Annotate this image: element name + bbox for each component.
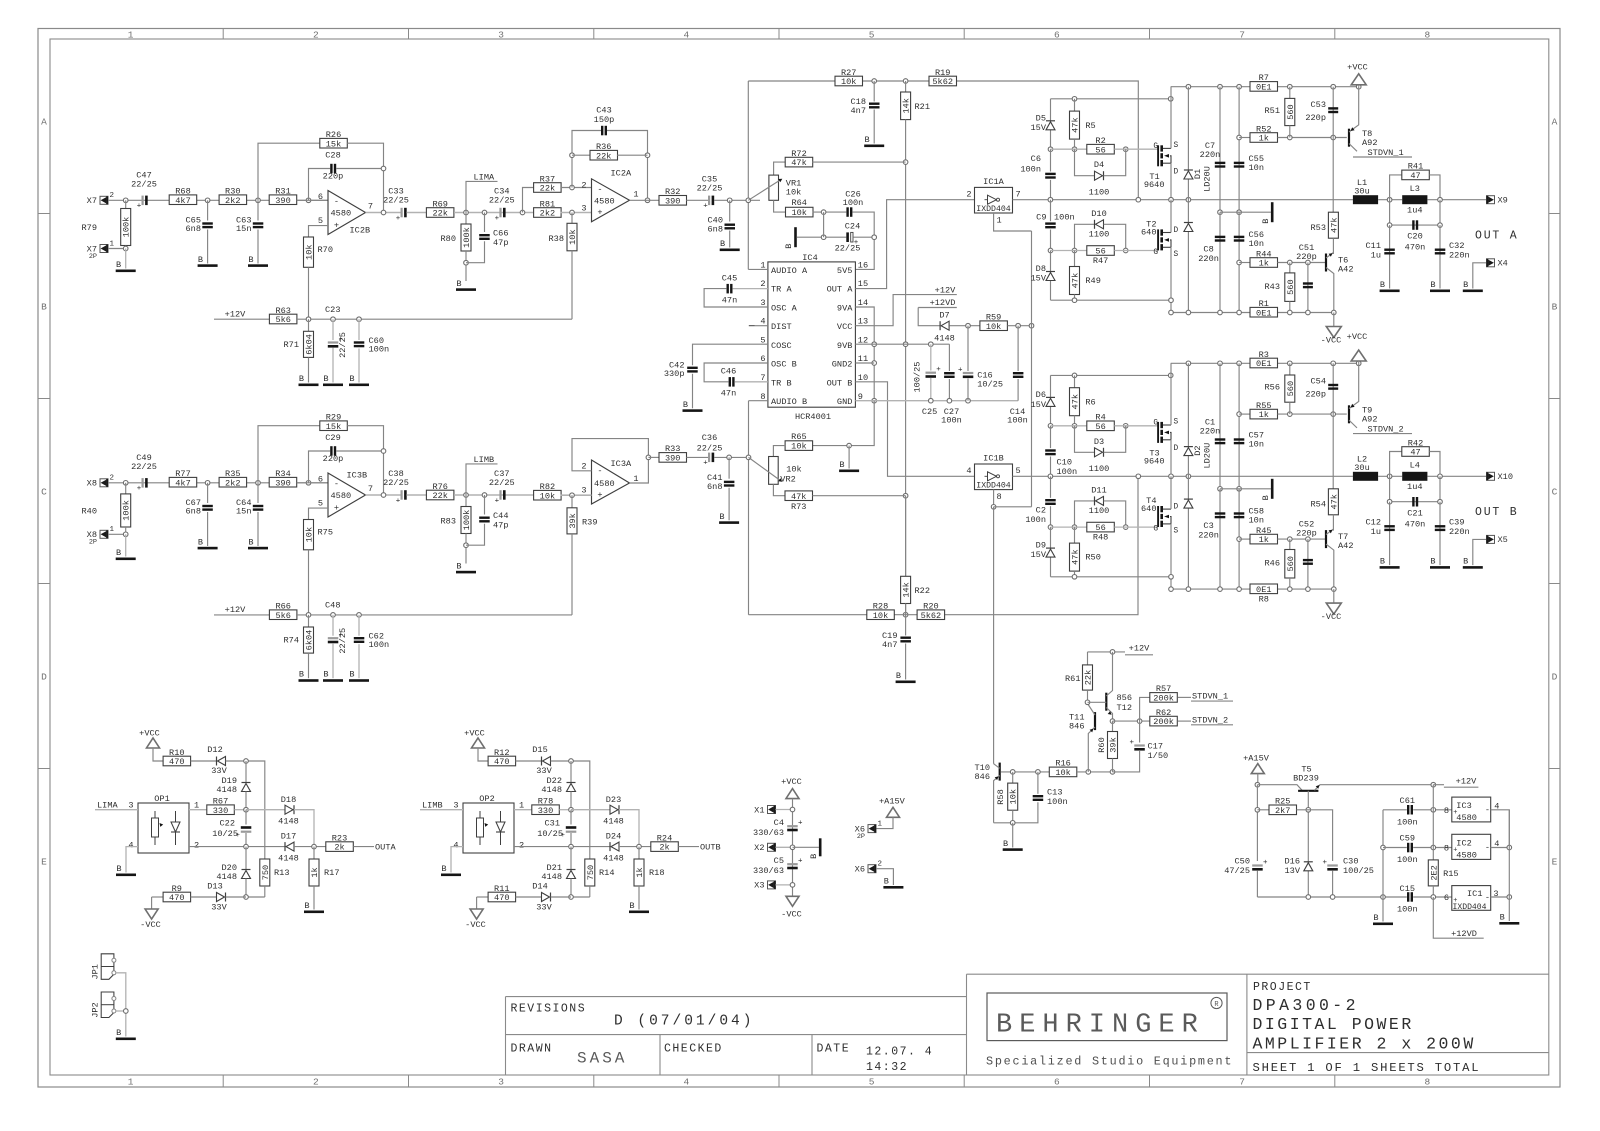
junction 2 <box>256 481 261 486</box>
bottom rail B <box>1171 588 1334 590</box>
svg-text:D3: D3 <box>1094 437 1104 447</box>
svg-text:14k: 14k <box>902 98 912 113</box>
junction IC2A out <box>645 198 650 203</box>
resistor R63 5k6 <box>269 314 297 324</box>
svg-text:10k: 10k <box>540 491 555 501</box>
svg-text:390: 390 <box>665 454 680 464</box>
svg-text:C8: C8 <box>1203 245 1213 255</box>
op-amp IC2B <box>328 191 366 235</box>
junction bias R70 <box>306 317 311 322</box>
terminal X7 pin2 <box>100 196 108 204</box>
bottom row opto <box>246 896 265 898</box>
svg-text:G: G <box>1153 143 1158 151</box>
svg-text:R23: R23 <box>332 833 347 843</box>
svg-text:0E1: 0E1 <box>1256 308 1271 318</box>
capacitor C33 22/25 <box>401 208 403 218</box>
svg-text:-: - <box>597 466 602 476</box>
svg-text:4580: 4580 <box>1456 813 1477 823</box>
svg-text:R10: R10 <box>169 748 184 758</box>
resistor R50 47k <box>1074 527 1076 543</box>
svg-text:560: 560 <box>1286 556 1296 571</box>
svg-text:PROJECT: PROJECT <box>1253 981 1312 994</box>
svg-text:1k: 1k <box>1259 259 1269 269</box>
ground C48 <box>323 679 343 682</box>
row tick B <box>38 213 50 215</box>
wire pin13 VCC riser +12V <box>855 295 956 326</box>
svg-text:2: 2 <box>760 279 765 289</box>
inductor L3 1u4 <box>1402 195 1427 204</box>
svg-text:1k: 1k <box>1259 410 1269 420</box>
diode column D1 LD20U <box>1187 87 1189 313</box>
capacitor C45 47n + loop <box>704 289 768 307</box>
ground under shunt <box>125 534 127 556</box>
svg-text:B: B <box>116 260 121 270</box>
svg-text:10/25: 10/25 <box>537 829 563 839</box>
svg-text:R75: R75 <box>318 528 333 538</box>
resistor R15 2E2 <box>1432 785 1434 860</box>
svg-text:R41: R41 <box>1408 162 1423 172</box>
svg-text:R82: R82 <box>540 482 555 492</box>
svg-text:100n: 100n <box>1397 818 1418 828</box>
svg-text:R43: R43 <box>1265 282 1280 292</box>
svg-text:200k: 200k <box>1153 717 1174 727</box>
svg-text:S: S <box>1174 142 1179 150</box>
svg-text:33V: 33V <box>536 766 552 776</box>
resistor R52 1k <box>1237 135 1242 140</box>
junction output <box>366 494 401 496</box>
svg-text:39k: 39k <box>1109 737 1119 752</box>
svg-text:5: 5 <box>318 216 323 226</box>
svg-text:4580: 4580 <box>331 209 352 219</box>
svg-text:B: B <box>299 374 304 384</box>
svg-text:10k: 10k <box>791 208 806 218</box>
svg-text:10k: 10k <box>1009 789 1019 804</box>
svg-text:4148: 4148 <box>216 872 237 882</box>
svg-text:JP1: JP1 <box>90 964 100 979</box>
resistor R19 5k62 <box>929 76 957 86</box>
ground C60 <box>349 384 369 387</box>
svg-text:LIMB: LIMB <box>422 801 443 811</box>
capacitor C59 100n <box>1381 845 1386 850</box>
svg-text:5k62: 5k62 <box>921 611 942 621</box>
capacitor C38 22/25 <box>401 490 403 500</box>
svg-text:C3: C3 <box>1203 521 1213 531</box>
svg-text:OUT B: OUT B <box>1475 506 1519 519</box>
jumper JP1 <box>101 954 114 980</box>
svg-text:390: 390 <box>665 196 680 206</box>
svg-text:2: 2 <box>878 861 883 869</box>
svg-text:R44: R44 <box>1256 249 1271 259</box>
resistor R76 22k <box>426 490 454 500</box>
svg-text:10k: 10k <box>791 442 806 452</box>
capacitor C4 330/63 <box>787 825 798 827</box>
svg-text:+12V: +12V <box>935 285 956 295</box>
svg-text:14: 14 <box>858 298 868 308</box>
resistor R9 470 <box>152 896 164 898</box>
resistor R57 200k <box>1140 697 1150 721</box>
svg-text:3: 3 <box>581 203 586 213</box>
svg-text:R5: R5 <box>1085 121 1095 131</box>
svg-text:100n: 100n <box>1054 213 1075 223</box>
svg-text:1u: 1u <box>1371 527 1381 537</box>
IC1A pin1 stub <box>994 213 1032 231</box>
svg-text:22/25: 22/25 <box>131 180 157 190</box>
zener return row <box>1051 299 1172 301</box>
pin2 row <box>189 846 285 848</box>
opto pin4 ground <box>451 847 463 873</box>
svg-text:B: B <box>809 854 819 859</box>
svg-text:3: 3 <box>498 1077 504 1088</box>
svg-text:B: B <box>683 400 688 410</box>
svg-text:47: 47 <box>1410 448 1420 458</box>
junction D12/D19 <box>244 759 249 764</box>
svg-text:R32: R32 <box>665 187 680 197</box>
ground R80 <box>456 288 476 291</box>
svg-text:COSC: COSC <box>771 341 792 351</box>
resistor R31 <box>269 195 297 205</box>
svg-text:33V: 33V <box>536 903 552 913</box>
junction minus node <box>306 481 311 486</box>
svg-text:100k: 100k <box>462 510 472 531</box>
svg-text:B: B <box>1463 557 1468 567</box>
capacitor C21 470n row <box>1390 476 1440 501</box>
svg-text:R79: R79 <box>82 223 97 233</box>
svg-text:SASA: SASA <box>577 1050 627 1068</box>
transistor T8 A92 <box>1348 129 1350 147</box>
pin2 row <box>514 846 610 848</box>
transistor T9 A92 <box>1348 405 1350 423</box>
svg-text:X6: X6 <box>855 865 865 875</box>
svg-text:+: + <box>798 858 803 866</box>
svg-text:4: 4 <box>684 30 690 41</box>
net label LIMB <box>464 493 469 498</box>
svg-text:D6: D6 <box>1036 390 1046 400</box>
svg-text:750: 750 <box>586 865 596 880</box>
svg-text:D: D <box>1174 504 1179 512</box>
right bus + ground <box>1508 810 1510 921</box>
svg-text:30u: 30u <box>1354 187 1369 197</box>
svg-text:750: 750 <box>261 865 271 880</box>
diode D18 4148 <box>246 809 285 811</box>
svg-text:C66: C66 <box>493 228 508 238</box>
transistor T10 846 <box>999 763 1001 781</box>
svg-text:1: 1 <box>110 240 115 248</box>
resistor R53 47k <box>1332 138 1334 213</box>
svg-text:LD20U: LD20U <box>1202 443 1212 469</box>
svg-text:4148: 4148 <box>278 854 299 864</box>
svg-text:10k: 10k <box>568 229 578 244</box>
svg-text:OP2: OP2 <box>479 794 494 804</box>
svg-text:2k2: 2k2 <box>225 196 240 206</box>
diode D21 4148 <box>570 847 572 870</box>
ground C65 <box>198 264 218 267</box>
svg-text:CHECKED: CHECKED <box>664 1043 723 1056</box>
svg-text:+: + <box>597 490 602 500</box>
optocoupler OP1 <box>138 803 189 853</box>
svg-text:4148: 4148 <box>603 854 624 864</box>
ground C32 <box>1430 290 1450 293</box>
svg-text:C12: C12 <box>1366 518 1381 528</box>
svg-text:100n: 100n <box>1057 467 1078 477</box>
svg-text:15k: 15k <box>326 139 341 149</box>
svg-text:R9: R9 <box>172 884 182 894</box>
resistor R37 22k <box>523 188 535 213</box>
svg-text:B: B <box>896 671 901 681</box>
resistor R10 470 <box>163 756 191 766</box>
svg-text:5: 5 <box>1016 466 1021 476</box>
svg-text:+VCC: +VCC <box>1347 332 1368 342</box>
terminal X1 <box>768 806 776 814</box>
svg-text:4148: 4148 <box>278 817 299 827</box>
svg-text:22/25: 22/25 <box>697 184 723 194</box>
capacitor C62 100n <box>357 613 362 618</box>
IC4 pin4 DIST stub <box>755 325 768 327</box>
svg-text:330/63: 330/63 <box>753 866 784 876</box>
+12VD label PSU <box>1433 897 1483 938</box>
svg-text:C31: C31 <box>545 819 560 829</box>
jumper JP2 <box>101 992 114 1018</box>
svg-text:AUDIO B: AUDIO B <box>771 397 807 407</box>
svg-text:C46: C46 <box>721 367 736 377</box>
svg-text:B: B <box>1552 302 1558 313</box>
svg-text:220n: 220n <box>1198 254 1219 264</box>
svg-text:22k: 22k <box>432 491 447 501</box>
lower gate row junctions <box>1048 248 1053 253</box>
resistor R40 (100k shunt) <box>125 483 127 494</box>
svg-text:C30: C30 <box>1343 857 1358 867</box>
svg-text:S: S <box>1174 251 1179 259</box>
svg-text:R18: R18 <box>649 868 664 878</box>
resistor R72 47k <box>774 162 786 175</box>
svg-text:R72: R72 <box>791 149 806 159</box>
svg-text:4148: 4148 <box>603 817 624 827</box>
svg-text:T12: T12 <box>1117 703 1132 713</box>
svg-text:B: B <box>1003 839 1008 849</box>
svg-text:330: 330 <box>538 806 553 816</box>
resistor R55 1k <box>1237 412 1242 417</box>
svg-text:B: B <box>323 670 328 680</box>
svg-text:D: D <box>1552 672 1558 683</box>
resistor R28 10k <box>749 476 1139 614</box>
svg-text:1: 1 <box>519 801 524 811</box>
svg-text:C17: C17 <box>1148 742 1163 752</box>
IC4 box HCR4001 <box>768 262 856 407</box>
svg-text:1: 1 <box>128 1077 134 1088</box>
svg-text:C44: C44 <box>493 511 508 521</box>
svg-text:R57: R57 <box>1156 684 1171 694</box>
capacitor C10 100n <box>1050 426 1052 448</box>
svg-text:+A15V: +A15V <box>1243 754 1270 764</box>
svg-text:2: 2 <box>581 462 586 472</box>
ground R71 <box>299 384 319 387</box>
svg-text:+: + <box>396 497 401 505</box>
svg-text:6n8: 6n8 <box>186 224 201 234</box>
junction input <box>123 481 128 486</box>
svg-text:1100: 1100 <box>1089 188 1110 198</box>
svg-text:C20: C20 <box>1407 232 1422 242</box>
svg-text:X3: X3 <box>754 881 764 891</box>
svg-text:TR A: TR A <box>771 285 792 295</box>
capacitor C44 47p <box>482 493 487 498</box>
svg-text:R2: R2 <box>1095 136 1105 146</box>
svg-text:R24: R24 <box>657 833 672 843</box>
wire +12V row <box>214 614 270 616</box>
svg-text:47k: 47k <box>1329 217 1339 232</box>
svg-text:R53: R53 <box>1311 223 1326 233</box>
svg-text:5: 5 <box>869 1077 875 1088</box>
long vertical R21 bus <box>905 120 907 615</box>
svg-text:G: G <box>1153 420 1158 428</box>
svg-text:10k: 10k <box>1055 768 1070 778</box>
junction C41 <box>727 455 732 460</box>
svg-text:22k: 22k <box>540 184 555 194</box>
capacitor C9 100n <box>1050 200 1052 222</box>
gate row junctions <box>1048 424 1053 429</box>
svg-text:R51: R51 <box>1265 106 1280 116</box>
svg-text:R31: R31 <box>275 187 290 197</box>
svg-text:C22: C22 <box>220 819 235 829</box>
resistor R34 <box>269 477 297 487</box>
svg-text:R35: R35 <box>225 469 240 479</box>
svg-text:5k6: 5k6 <box>275 315 290 325</box>
net label STDVN_2 <box>1353 433 1412 435</box>
svg-text:C29: C29 <box>325 433 340 443</box>
junction R64/C26 <box>813 211 847 213</box>
mosfet T3 9640 <box>1157 422 1159 443</box>
base bus T5 <box>1307 791 1309 897</box>
svg-text:15: 15 <box>858 279 868 289</box>
svg-text:D: D <box>1174 445 1179 453</box>
capacitor C22 10/25 <box>245 810 247 825</box>
junction bias R70 <box>306 613 311 618</box>
resistor R18 1k <box>638 847 640 859</box>
capacitor C46 47n + loop <box>704 363 768 382</box>
svg-text:1: 1 <box>110 526 115 534</box>
capacitor C55 10n <box>1238 87 1240 213</box>
svg-text:JP2: JP2 <box>90 1002 100 1017</box>
terminal X4 <box>1487 259 1495 267</box>
feedback resistor R26 15k <box>258 143 320 200</box>
wire pin15 OUT A riser <box>855 200 974 289</box>
-VCC symbol A <box>1333 313 1335 327</box>
svg-text:B: B <box>349 670 354 680</box>
svg-text:2: 2 <box>194 841 199 851</box>
capacitor C26 100n <box>846 207 848 217</box>
svg-text:4: 4 <box>966 466 971 476</box>
diode column D2 LD20U <box>1187 363 1189 589</box>
svg-text:56: 56 <box>1095 422 1105 432</box>
junction IC3A out <box>646 455 651 460</box>
svg-text:S: S <box>1174 419 1179 427</box>
capacitor C58 10n <box>1238 489 1240 589</box>
svg-text:6: 6 <box>1444 893 1449 903</box>
svg-text:+: + <box>958 366 963 374</box>
svg-text:5k6: 5k6 <box>275 611 290 621</box>
svg-text:B: B <box>349 374 354 384</box>
svg-text:AMPLIFIER 2 x 200W: AMPLIFIER 2 x 200W <box>1253 1035 1476 1054</box>
svg-text:R15: R15 <box>1443 869 1458 879</box>
svg-text:8: 8 <box>997 492 1002 502</box>
resistor R44 1k <box>1237 260 1242 265</box>
svg-text:100n: 100n <box>843 198 864 208</box>
svg-text:R50: R50 <box>1085 553 1100 563</box>
feedback capacitor C28 220p <box>309 169 331 201</box>
zener D15 33V <box>543 757 551 766</box>
svg-text:D2: D2 <box>1193 445 1203 455</box>
resistor R43 560 <box>1289 263 1291 273</box>
svg-text:Specialized Studio Equipment: Specialized Studio Equipment <box>986 1055 1233 1069</box>
svg-text:1k: 1k <box>635 867 645 877</box>
svg-text:2P: 2P <box>89 253 97 261</box>
svg-text:R68: R68 <box>175 187 190 197</box>
row tick E <box>38 768 50 770</box>
svg-text:D: D <box>41 672 47 683</box>
svg-text:560: 560 <box>1286 279 1296 294</box>
ground C18 <box>864 145 884 148</box>
svg-text:OP1: OP1 <box>154 794 169 804</box>
svg-text:R62: R62 <box>1156 708 1171 718</box>
capacitor C14 100n <box>1017 326 1019 371</box>
svg-text:C24: C24 <box>845 221 860 231</box>
-VCC symbol B <box>1333 589 1335 603</box>
svg-text:D4: D4 <box>1094 160 1104 170</box>
svg-text:47k: 47k <box>1071 394 1081 409</box>
resistor R79 (100k shunt) <box>125 200 127 208</box>
diode D22 4148 <box>570 761 572 783</box>
junction R81 right <box>570 210 575 215</box>
svg-text:LD20U: LD20U <box>1202 166 1212 192</box>
capacitor C36 22/25 <box>708 453 710 463</box>
resistor R48 56 <box>1087 522 1115 532</box>
svg-text:5k62: 5k62 <box>932 77 953 87</box>
svg-text:IXDD404: IXDD404 <box>1453 903 1487 912</box>
svg-text:47: 47 <box>1410 171 1420 181</box>
IC3 4580 box <box>1452 797 1491 822</box>
svg-text:-: - <box>334 196 339 206</box>
svg-text:8: 8 <box>1444 844 1449 854</box>
svg-text:X2: X2 <box>754 843 764 853</box>
svg-text:4n7: 4n7 <box>851 106 866 116</box>
junction C40 <box>727 198 732 203</box>
capacitor C32 220n <box>1439 225 1441 288</box>
capacitor C42 330p <box>693 344 768 365</box>
svg-text:IXDD404: IXDD404 <box>976 481 1010 490</box>
svg-text:-VCC: -VCC <box>781 910 802 920</box>
svg-text:22/25: 22/25 <box>338 332 348 358</box>
svg-text:+: + <box>703 203 708 211</box>
svg-text:VR2: VR2 <box>780 475 795 485</box>
capacitor C54 220p <box>1332 363 1334 414</box>
svg-text:R45: R45 <box>1256 526 1271 536</box>
svg-text:2: 2 <box>313 1077 319 1088</box>
svg-text:10/25: 10/25 <box>977 380 1003 390</box>
svg-text:10n: 10n <box>1249 163 1264 173</box>
svg-text:100n: 100n <box>1047 797 1068 807</box>
junction after L1 <box>1378 199 1402 201</box>
svg-text:G: G <box>1153 249 1158 257</box>
ground X6 <box>883 886 903 889</box>
zener D13 33V <box>217 893 225 902</box>
resistor R13 750 <box>260 859 270 886</box>
svg-text:S: S <box>1174 528 1179 536</box>
optocoupler OP2 <box>463 803 514 853</box>
capacitor C34 22/25 <box>499 208 501 218</box>
mosfet T2 640 <box>1157 229 1159 250</box>
capacitor C6 100n <box>1050 149 1052 171</box>
svg-text:2E2: 2E2 <box>1429 865 1439 880</box>
resistor R4 56 <box>1087 421 1115 431</box>
capacitor C18 4n7 <box>873 81 875 102</box>
